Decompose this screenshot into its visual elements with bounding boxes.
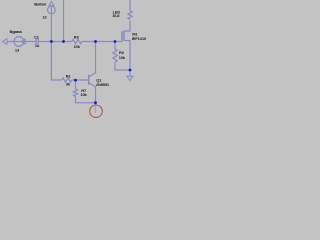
junction emitter node [94, 101, 97, 104]
junction at Button/left branch [50, 40, 53, 43]
svg-text:10k: 10k [74, 44, 81, 49]
resistor R2 zigzag [113, 49, 117, 62]
wire emitter node into ground marker [95, 103, 97, 113]
MOSFET M1 channel bar [123, 31, 125, 41]
wire R7 bottom to emitter node [76, 97, 96, 103]
current source I1 Button arrow [49, 1, 54, 5]
capacitor C1 plates [36, 38, 38, 45]
transistor Q1 emitter [89, 83, 95, 103]
ground arrow symbol [127, 76, 133, 80]
MOSFET M1 source stub and lead to ground node [124, 41, 130, 71]
red highlight ellipse on floating node [90, 105, 103, 117]
resistor LED wire from top edge [129, 0, 131, 11]
wire bypass to capacitor [7, 41, 36, 43]
background [0, 0, 160, 120]
resistor R1 zigzag [62, 78, 72, 82]
wire R1 to Q1 base [72, 79, 89, 81]
current source I1 Button stem and wire to rail [50, 6, 52, 42]
svg-text:Bypass: Bypass [10, 29, 23, 34]
svg-text:10k: 10k [119, 55, 126, 60]
junction at R7 branch [74, 79, 77, 82]
wire R2 bottom to ground node [115, 62, 130, 70]
wire rail down-left branch to base row [51, 42, 61, 81]
ground stem [129, 70, 131, 76]
junction ground node [129, 69, 132, 72]
svg-text:10k: 10k [80, 92, 87, 97]
svg-text:16.8: 16.8 [112, 13, 120, 18]
svg-text:Button: Button [34, 1, 47, 6]
transistor Q1 base bar [88, 75, 90, 85]
current source I2 Bypass circle [14, 37, 24, 47]
svg-text:2N5551: 2N5551 [96, 82, 110, 87]
current source I1 Button circle [48, 6, 56, 14]
resistor LED zigzag [128, 11, 132, 19]
wire R3 to MOSFET gate [82, 41, 122, 43]
wire capacitor to R3 [38, 41, 72, 43]
wire from top edge to rail [63, 0, 65, 42]
svg-text:IRF1310: IRF1310 [132, 36, 147, 41]
current source I2 arrow [21, 39, 25, 44]
svg-text:1u: 1u [35, 43, 40, 48]
junction at Q1 collector [94, 40, 97, 43]
resistor R7 zigzag [73, 89, 77, 97]
port arrow (Bypass input) [3, 39, 7, 45]
transistor Q1 collector [89, 42, 95, 77]
MOSFET M1 gate bar [121, 31, 123, 41]
resistor R7 branch wire top [75, 80, 77, 89]
resistor R3 zigzag [72, 39, 82, 43]
junction at R2 branch [114, 40, 117, 43]
junction at top wire [62, 40, 65, 43]
wire LED resistor to M1 drain [124, 21, 130, 32]
resistor R2 branch wire [114, 42, 116, 50]
